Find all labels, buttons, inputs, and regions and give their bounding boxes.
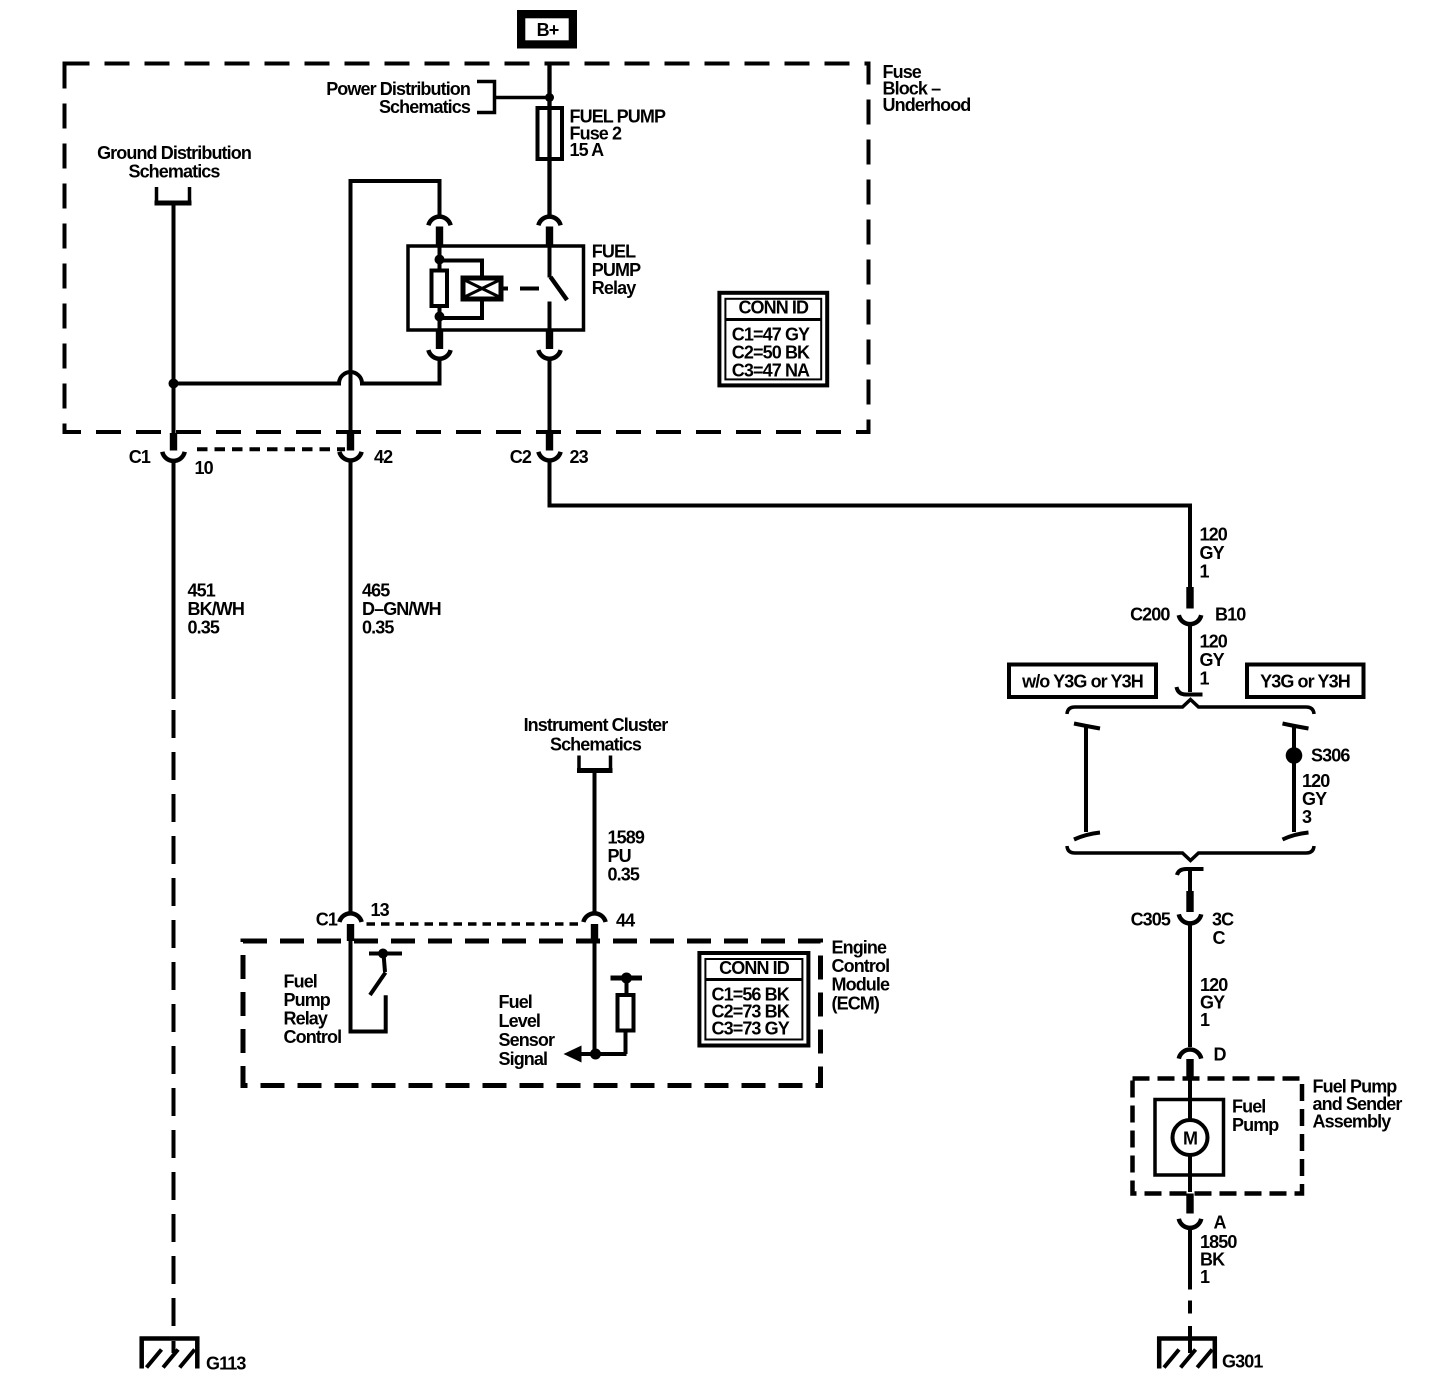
svg-text:10: 10 <box>195 458 214 478</box>
label Fuel Pump Relay Control <box>284 972 342 1048</box>
svg-text:465: 465 <box>362 581 390 601</box>
wire from power distribution bracket to B+ feed <box>495 96 550 100</box>
svg-text:G301: G301 <box>1222 1352 1263 1372</box>
svg-text:Fuel: Fuel <box>499 992 532 1012</box>
relay coil pin connector arc (top) <box>428 217 450 226</box>
connector C305 pin 3C female arc <box>1179 914 1201 923</box>
svg-text:0.35: 0.35 <box>188 618 220 638</box>
label Ground Distribution Schematics <box>97 143 251 182</box>
svg-text:C1: C1 <box>129 447 151 467</box>
svg-text:13: 13 <box>371 900 390 920</box>
wire 1589 PU instrument cluster to ECM pin 44 <box>593 773 597 913</box>
connector C200 pin B10 male stub <box>1186 587 1193 609</box>
ECM connector C1 pin 13 female arc <box>339 913 361 922</box>
label 465 D-GN/WH 0.35 <box>362 581 441 638</box>
branch wire left (w/o Y3G or Y3H) <box>1074 724 1100 840</box>
svg-text:C200: C200 <box>1130 605 1170 625</box>
svg-text:Underhood: Underhood <box>883 95 971 115</box>
svg-text:Level: Level <box>499 1011 541 1031</box>
svg-text:120: 120 <box>1200 632 1228 652</box>
node dot signal junction <box>590 1049 601 1060</box>
svg-text:CONN ID: CONN ID <box>719 958 790 978</box>
power distribution reference bracket <box>477 82 495 113</box>
svg-text:Assembly: Assembly <box>1313 1112 1392 1132</box>
svg-text:3C: 3C <box>1212 910 1234 930</box>
ECM dashed boundary box <box>243 941 821 1086</box>
svg-text:1589: 1589 <box>608 828 645 848</box>
relay coil crossed-box symbol <box>463 278 501 299</box>
wire 1850 BK tip into ground <box>1188 1326 1192 1353</box>
battery feed B+ terminal box <box>517 10 577 49</box>
wire 120 GY C305 to pump connector D <box>1188 923 1192 1047</box>
driver switch post <box>384 954 386 973</box>
svg-text:120: 120 <box>1200 525 1228 545</box>
pull-up rail bar <box>611 976 643 981</box>
relay switch blade <box>551 277 568 300</box>
connector C305 pin 3C male stub <box>1186 891 1193 912</box>
wire loop to relay coil symbol <box>440 261 483 279</box>
connector D female arc <box>1179 1050 1201 1059</box>
wire ECM pin 44 down to sensor signal node <box>593 941 597 1054</box>
arrowhead fuel level sensor signal <box>564 1046 582 1063</box>
connector A female arc <box>1179 1219 1201 1228</box>
ECM connector C1 pin 13 male stub <box>347 924 354 941</box>
dashed connector line ECM pins 13 to 44 <box>367 922 585 926</box>
svg-text:C: C <box>1213 928 1226 948</box>
branch wire right (Y3G or Y3H) <box>1283 724 1309 840</box>
connector C200 pin B10 female arc <box>1179 615 1201 624</box>
label 120 GY 3 <box>1302 771 1330 827</box>
svg-text:42: 42 <box>374 447 393 467</box>
svg-text:Relay: Relay <box>592 278 636 298</box>
wire down to C305 <box>1188 869 1192 891</box>
svg-text:C2=50 BK: C2=50 BK <box>732 343 810 363</box>
svg-text:Sensor: Sensor <box>499 1030 556 1050</box>
label Fuel Pump (inner) <box>1232 1097 1279 1136</box>
svg-text:15 A: 15 A <box>570 140 605 160</box>
label Power Distribution Schematics <box>326 79 471 117</box>
svg-text:PU: PU <box>608 846 631 866</box>
dashed actuation link coil to switch <box>520 287 539 291</box>
svg-text:S306: S306 <box>1311 746 1350 766</box>
dashed connector line C1 pins 10 to 42 <box>197 447 345 451</box>
connector C2 pin 23 female arc <box>538 452 560 461</box>
wire 1850 BK dash segment <box>1188 1301 1192 1314</box>
svg-text:1: 1 <box>1200 1267 1210 1287</box>
wire rail to resistor <box>625 978 629 995</box>
wire B+ vertical feed through fuse <box>547 64 551 215</box>
svg-text:Control: Control <box>284 1027 342 1047</box>
svg-text:Ground Distribution: Ground Distribution <box>97 143 251 163</box>
relay coil pin male stub (bottom) <box>436 329 443 349</box>
split brace (top) <box>1067 700 1314 715</box>
svg-text:23: 23 <box>570 447 589 467</box>
connector C1 pin 10 male stub <box>170 433 177 451</box>
Instrument Cluster Schematics label <box>524 715 669 755</box>
label Fuel Level Sensor Signal <box>499 992 556 1069</box>
connector C2 pin 23 male stub <box>546 433 553 451</box>
svg-text:Pump: Pump <box>1232 1115 1279 1135</box>
motor M circle <box>1173 1120 1208 1155</box>
label FUEL PUMP Relay <box>592 242 641 299</box>
svg-text:Module: Module <box>832 975 890 995</box>
svg-text:w/o Y3G or Y3H: w/o Y3G or Y3H <box>1021 672 1143 692</box>
option box w/o Y3G or Y3H <box>1009 665 1156 698</box>
instrument cluster reference bracket <box>577 756 613 771</box>
svg-text:C2: C2 <box>510 447 532 467</box>
svg-text:M: M <box>1183 1129 1197 1149</box>
svg-text:Y3G or Y3H: Y3G or Y3H <box>1260 672 1350 692</box>
svg-text:Schematics: Schematics <box>379 97 471 117</box>
svg-text:D: D <box>1214 1045 1227 1065</box>
label 1589 PU 0.35 <box>608 828 645 885</box>
svg-text:(ECM): (ECM) <box>832 994 880 1014</box>
connector A male stub <box>1186 1194 1193 1214</box>
label 1850 BK 1 <box>1200 1232 1237 1287</box>
svg-text:Signal: Signal <box>499 1049 548 1069</box>
svg-text:B10: B10 <box>1215 605 1246 625</box>
svg-text:Pump: Pump <box>284 990 331 1010</box>
node dot coil bottom <box>435 312 445 322</box>
ground G113 symbol <box>140 1337 200 1369</box>
ground G301 symbol <box>1157 1337 1217 1369</box>
svg-text:C3=47 NA: C3=47 NA <box>732 361 810 381</box>
fuse F2 FUEL PUMP 15A <box>538 108 563 159</box>
svg-text:1: 1 <box>1200 1010 1210 1030</box>
svg-text:Engine: Engine <box>832 938 887 958</box>
svg-text:GY: GY <box>1200 650 1225 670</box>
svg-text:120: 120 <box>1302 771 1330 791</box>
relay switch pin male stub (top) <box>546 227 553 247</box>
split brace (bottom) <box>1067 846 1314 861</box>
driver top bar <box>369 952 402 956</box>
node dot on rail <box>621 973 632 984</box>
node dot on driver bar <box>378 949 388 959</box>
relay coil internal wire lower <box>438 306 442 330</box>
ground distribution reference bracket <box>155 187 192 203</box>
wire 465 D-GN/WH from 42 to ECM <box>349 461 353 913</box>
svg-text:BK/WH: BK/WH <box>188 599 245 619</box>
relay coil pin connector arc (bottom) <box>428 350 450 359</box>
wire 120 GY below C200 <box>1188 624 1192 692</box>
wire start hook below merge brace <box>1177 869 1204 875</box>
connector C1 pin 10 female arc <box>162 452 184 461</box>
fuel pump inner box <box>1155 1100 1224 1176</box>
svg-text:Schematics: Schematics <box>128 162 220 182</box>
svg-text:44: 44 <box>616 911 635 931</box>
label FUEL PUMP Fuse 2 15 A <box>570 107 666 161</box>
wire motor to assembly bottom <box>1188 1155 1192 1192</box>
wire stub from coil symbol <box>501 287 508 291</box>
wire 451 BK/WH from C1-10 toward G113 (solid part) <box>172 461 176 700</box>
svg-text:C305: C305 <box>1131 910 1171 930</box>
wire 451 tip into ground G113 <box>172 1341 176 1353</box>
driver switch blade <box>370 973 386 996</box>
svg-text:C1: C1 <box>316 910 338 930</box>
fuse block underhood dashed boundary box <box>65 64 869 433</box>
svg-text:GY: GY <box>1200 543 1225 563</box>
node junction dot at fuse feed <box>545 93 554 102</box>
svg-text:Control: Control <box>832 956 890 976</box>
relay switch pin connector arc (bottom) <box>538 350 560 359</box>
option box Y3G or Y3H <box>1247 665 1364 698</box>
connector pin 42 male stub <box>347 433 354 451</box>
wire relay coil low side to ground wire junction with crossover hump <box>174 359 440 384</box>
wire into motor <box>1188 1079 1192 1121</box>
wire connector 42 up and over to relay coil high side <box>351 181 440 433</box>
wire ground distribution down to connector C1 pin 10 <box>172 206 176 434</box>
svg-text:451: 451 <box>188 581 216 601</box>
label 120 GY 1 (below C200) <box>1200 632 1228 689</box>
svg-text:G113: G113 <box>206 1354 246 1374</box>
svg-text:D–GN/WH: D–GN/WH <box>362 599 441 619</box>
svg-text:0.35: 0.35 <box>608 865 640 885</box>
wire 120 GY from C2-23 right and down to C200 <box>550 461 1191 588</box>
svg-text:A: A <box>1214 1213 1227 1233</box>
svg-text:C3=73 GY: C3=73 GY <box>712 1019 790 1039</box>
ECM connector pin 44 male stub <box>591 924 598 941</box>
label 120 GY 1 (upper) <box>1200 525 1228 582</box>
resistor (fuel level pull-up) <box>618 995 634 1031</box>
svg-text:C1=47 GY: C1=47 GY <box>732 325 810 345</box>
CONN ID table (ECM) <box>699 953 808 1046</box>
wire end hook above split brace <box>1177 687 1203 695</box>
splice S306 dot <box>1286 747 1303 764</box>
svg-text:Schematics: Schematics <box>550 735 642 755</box>
node junction dot on ground wire <box>169 379 179 389</box>
signal wire horizontal with arrow <box>568 1052 627 1056</box>
svg-text:1: 1 <box>1200 562 1210 582</box>
svg-text:Fuel: Fuel <box>1232 1097 1265 1117</box>
svg-text:CONN ID: CONN ID <box>738 298 809 318</box>
fuel pump and sender assembly dashed box <box>1133 1079 1303 1194</box>
svg-text:0.35: 0.35 <box>362 618 394 638</box>
svg-text:1: 1 <box>1200 669 1210 689</box>
relay switch pin male stub (bottom) <box>546 329 553 349</box>
svg-text:PUMP: PUMP <box>592 260 641 280</box>
fuel pump relay control driver wire L path <box>351 941 386 1032</box>
svg-text:Power Distribution: Power Distribution <box>326 79 470 99</box>
wire relay switch bottom to connector C2 pin 23 <box>548 359 552 433</box>
label Fuel Pump and Sender Assembly <box>1313 1077 1403 1132</box>
relay K - FUEL PUMP Relay outline box <box>408 246 584 330</box>
node dot coil top <box>435 255 445 265</box>
wire 1850 BK solid part <box>1188 1228 1192 1290</box>
label 120 GY 1 (lower) <box>1200 975 1228 1030</box>
connector pin 42 female arc <box>339 452 361 461</box>
label 451 BK/WH 0.35 <box>188 581 245 638</box>
svg-text:Relay: Relay <box>284 1009 328 1029</box>
connector D male stub <box>1186 1059 1193 1079</box>
relay switch contact lower <box>548 302 552 331</box>
svg-text:FUEL: FUEL <box>592 242 636 262</box>
ECM connector pin 44 female arc <box>583 913 605 922</box>
svg-text:B+: B+ <box>537 20 559 40</box>
label Fuse Block Underhood <box>883 62 971 115</box>
svg-text:Instrument Cluster: Instrument Cluster <box>524 715 669 735</box>
relay coil pin male stub (top) <box>436 227 443 247</box>
relay switch contact upper <box>548 246 552 278</box>
CONN ID table (fuse block) <box>719 293 827 386</box>
wire resistor to signal node <box>624 1031 628 1055</box>
svg-text:3: 3 <box>1302 807 1312 827</box>
svg-text:Fuel: Fuel <box>284 972 317 992</box>
resistor inside relay <box>432 271 448 307</box>
label Engine Control Module (ECM) <box>832 938 890 1014</box>
relay coil internal wire upper <box>438 246 442 271</box>
wire 451 BK/WH dashed run to G113 <box>172 710 176 1337</box>
svg-text:GY: GY <box>1302 789 1327 809</box>
relay switch pin connector arc (top) <box>538 217 560 226</box>
